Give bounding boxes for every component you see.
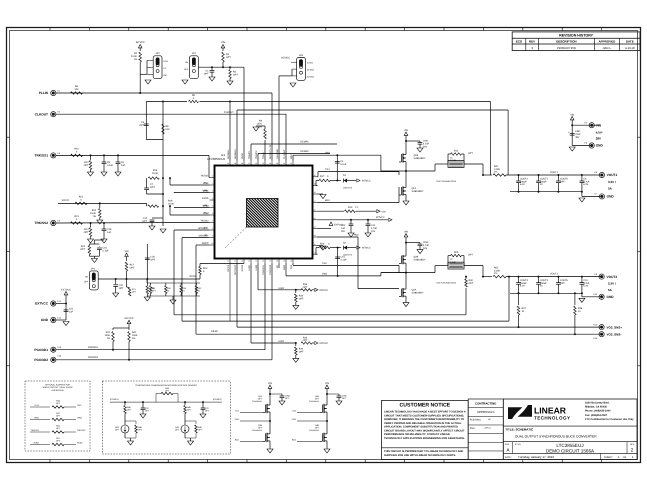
svg-text:INTVCC: INTVCC — [320, 289, 329, 292]
svg-text:0.1uF: 0.1uF — [341, 259, 348, 262]
svg-text:330uF: 330uF — [540, 282, 547, 285]
svg-text:CIRCUIT THAT MEETS CUSTOMER-SU: CIRCUIT THAT MEETS CUSTOMER-SUPPLIED SPE… — [384, 414, 464, 417]
svg-text:1%: 1% — [494, 272, 497, 275]
svg-text:R19: R19 — [348, 206, 353, 209]
svg-text:ILIM1: ILIM1 — [278, 340, 285, 343]
svg-text:1%: 1% — [259, 126, 262, 129]
svg-text:R25: R25 — [454, 251, 459, 254]
svg-text:TOK PLF10545-2R2M: TOK PLF10545-2R2M — [436, 180, 456, 183]
svg-text:PERFORMANCE OR RELIABILITY. C: PERFORMANCE OR RELIABILITY. CONTACT LINE… — [384, 433, 450, 436]
svg-text:EXTVCC: EXTVCC — [61, 288, 71, 291]
svg-text:VFB1: VFB1 — [203, 190, 210, 193]
svg-text:COUT2: COUT2 — [520, 178, 529, 181]
svg-text:R39: R39 — [299, 348, 304, 351]
svg-text:R10: R10 — [74, 148, 79, 151]
svg-text:1630 McCarthy Blvd.: 1630 McCarthy Blvd. — [585, 401, 610, 404]
svg-text:R22: R22 — [79, 196, 84, 199]
svg-text:7: 7 — [212, 220, 213, 223]
svg-text:EXTVCC: EXTVCC — [334, 223, 344, 226]
svg-text:INTVCC: INTVCC — [362, 180, 371, 183]
svg-text:TITLE: SCHEMATIC: TITLE: SCHEMATIC — [505, 428, 534, 432]
svg-text:LTC3855EUJ: LTC3855EUJ — [207, 157, 225, 161]
svg-text:Q2A: Q2A — [412, 289, 417, 292]
svg-text:DIFFN: DIFFN — [227, 265, 230, 272]
svg-text:1uF: 1uF — [121, 164, 126, 167]
svg-text:INTVCC: INTVCC — [136, 41, 145, 44]
svg-text:R17: R17 — [130, 264, 135, 267]
svg-text:11: 11 — [227, 260, 229, 263]
svg-text:PHASMD: PHASMD — [276, 149, 279, 159]
svg-text:R36: R36 — [303, 283, 308, 286]
svg-text:R18: R18 — [168, 200, 173, 203]
svg-text:6.3V: 6.3V — [520, 183, 525, 186]
svg-text:OF: OF — [623, 456, 627, 459]
svg-text:6: 6 — [212, 212, 213, 215]
svg-text:APPROVALS: APPROVALS — [477, 410, 494, 414]
svg-text:1%: 1% — [93, 215, 96, 218]
svg-text:VIN: VIN — [596, 123, 602, 127]
svg-text:TEMPERATURE COMPENSATION NETWO: TEMPERATURE COMPENSATION NETWORK FOR DCR… — [135, 384, 197, 387]
svg-text:LINEAR TECHNOLOGY HAS MADE A B: LINEAR TECHNOLOGY HAS MADE A BEST EFFORT… — [384, 411, 466, 414]
svg-text:RUN2: RUN2 — [77, 441, 83, 444]
svg-text:COUT5: COUT5 — [560, 178, 569, 181]
svg-text:PGOOD1: PGOOD1 — [88, 346, 99, 349]
svg-text:OPT: OPT — [80, 248, 85, 251]
svg-text:PGOOD2: PGOOD2 — [34, 358, 48, 362]
svg-text:VFB2: VFB2 — [77, 416, 83, 419]
svg-text:R38: R38 — [578, 307, 583, 310]
svg-text:OPT: OPT — [299, 298, 304, 301]
svg-text:0.1uF: 0.1uF — [103, 250, 110, 253]
svg-text:FDS6982AS: FDS6982AS — [252, 429, 263, 432]
svg-text:C28: C28 — [150, 256, 155, 259]
svg-text:C19: C19 — [583, 279, 588, 282]
svg-text:Phone: (408)432-1900: Phone: (408)432-1900 — [585, 410, 611, 413]
svg-text:34: 34 — [269, 162, 271, 165]
svg-text:OPERATION: OPERATION — [52, 389, 64, 392]
svg-text:IC NO.: IC NO. — [515, 443, 522, 446]
svg-text:VOUT1: VOUT1 — [607, 173, 618, 177]
svg-text:TRK/SS2: TRK/SS2 — [77, 429, 86, 432]
svg-text:OPT: OPT — [130, 267, 135, 270]
svg-text:4.7uF: 4.7uF — [583, 282, 590, 285]
svg-text:OPT: OPT — [139, 124, 144, 127]
svg-text:MODE/PLLIN: MODE/PLLIN — [269, 145, 272, 159]
svg-text:JP4: JP4 — [91, 267, 96, 270]
svg-text:20.0K: 20.0K — [152, 172, 159, 175]
svg-text:R37: R37 — [522, 307, 527, 310]
svg-text:DUAL OUTPUT SYNCHRONOUS BUCK C: DUAL OUTPUT SYNCHRONOUS BUCK CONVERTER — [515, 435, 597, 439]
svg-text:40: 40 — [227, 162, 229, 165]
svg-text:VFB2: VFB2 — [203, 205, 210, 208]
svg-text:NC: NC — [276, 265, 279, 269]
svg-text:PGOOD1: PGOOD1 — [34, 348, 48, 352]
svg-text:R29: R29 — [203, 267, 208, 270]
svg-text:REV: REV — [630, 443, 635, 446]
svg-text:RUN2: RUN2 — [241, 264, 244, 271]
svg-text:BM: BM — [164, 74, 167, 77]
svg-text:JIAN LI: JIAN LI — [484, 427, 491, 430]
svg-text:GND: GND — [596, 144, 604, 148]
svg-text:R42: R42 — [132, 331, 137, 334]
svg-text:VIN: VIN — [325, 382, 329, 385]
svg-text:PRODUCTION: PRODUCTION — [557, 46, 576, 50]
svg-text:(ITEMP1): (ITEMP1) — [110, 398, 119, 401]
svg-text:6.3V: 6.3V — [583, 285, 588, 288]
svg-text:R20: R20 — [92, 209, 97, 212]
svg-text:FCM: FCM — [164, 60, 169, 63]
svg-text:SW1: SW1 — [290, 153, 293, 159]
svg-text:VOUT1: VOUT1 — [62, 199, 71, 202]
svg-text:24: 24 — [314, 226, 316, 229]
svg-text:DEMO CIRCUIT 1566A: DEMO CIRCUIT 1566A — [546, 449, 595, 454]
svg-text:OPT: OPT — [468, 152, 473, 155]
svg-text:SUPPLIED FOR USE WITH LINEAR T: SUPPLIED FOR USE WITH LINEAR TECHNOLOGY … — [384, 454, 456, 457]
svg-text:PLLIN: PLLIN — [39, 91, 49, 95]
svg-text:RUN1: RUN1 — [34, 441, 40, 444]
svg-text:FDS6982AS: FDS6982AS — [309, 400, 320, 403]
svg-text:OPTIONAL JUMPERS FOR: OPTIONAL JUMPERS FOR — [45, 384, 70, 387]
svg-text:13: 13 — [241, 260, 243, 263]
svg-text:28V: 28V — [596, 137, 601, 141]
svg-text:JIAN L.: JIAN L. — [602, 46, 611, 50]
svg-text:19: 19 — [283, 260, 285, 263]
svg-text:0.1uF: 0.1uF — [107, 164, 114, 167]
svg-text:4V: 4V — [540, 285, 543, 288]
svg-text:29: 29 — [314, 183, 316, 186]
svg-text:100K: 100K — [132, 334, 138, 337]
svg-text:33: 33 — [276, 162, 278, 165]
svg-text:VOUT2: VOUT2 — [550, 272, 559, 275]
svg-text:Q1B: Q1B — [414, 154, 419, 157]
svg-text:C20: C20 — [119, 284, 124, 287]
svg-text:4-13-10: 4-13-10 — [625, 46, 635, 50]
svg-text:27: 27 — [314, 200, 316, 203]
svg-text:35: 35 — [262, 162, 264, 165]
svg-text:SW1: SW1 — [325, 151, 331, 154]
svg-text:OPT: OPT — [150, 259, 155, 262]
svg-text:OPT: OPT — [119, 287, 124, 290]
svg-text:1%: 1% — [134, 58, 137, 61]
svg-text:1: 1 — [212, 175, 213, 178]
svg-text:Q1A: Q1A — [412, 187, 417, 190]
svg-text:25: 25 — [314, 217, 316, 220]
svg-text:ILIM2: ILIM2 — [255, 264, 258, 271]
svg-text:20: 20 — [290, 260, 292, 263]
svg-text:10K: 10K — [74, 88, 79, 91]
svg-text:4V: 4V — [540, 183, 543, 186]
svg-text:5: 5 — [212, 205, 213, 208]
svg-text:Milpitas, CA 95035: Milpitas, CA 95035 — [585, 406, 607, 409]
svg-text:2.5V /: 2.5V / — [608, 282, 616, 286]
svg-text:2.2uH: 2.2uH — [450, 159, 457, 162]
svg-text:32: 32 — [283, 162, 285, 165]
svg-text:COUT1: COUT1 — [540, 178, 549, 181]
svg-text:23: 23 — [314, 234, 316, 237]
svg-text:FDS6982AS: FDS6982AS — [252, 400, 263, 403]
svg-text:OPT: OPT — [233, 74, 238, 77]
svg-text:FDS6982AS: FDS6982AS — [309, 429, 320, 432]
svg-text:CMDSH-3: CMDSH-3 — [343, 187, 353, 190]
svg-text:2.2uH: 2.2uH — [450, 261, 457, 264]
svg-text:OPT: OPT — [84, 231, 89, 234]
svg-text:12: 12 — [234, 260, 236, 263]
svg-text:3.3V /: 3.3V / — [608, 180, 616, 184]
svg-text:CLKOUT: CLKOUT — [35, 112, 48, 116]
svg-text:THIS CIRCUIT IS PROPRIETARY TO: THIS CIRCUIT IS PROPRIETARY TO LINEAR TE… — [384, 450, 463, 453]
svg-text:PGOOD1: PGOOD1 — [262, 264, 265, 275]
svg-text:ITH2: ITH2 — [203, 212, 209, 215]
svg-text:50V: 50V — [423, 146, 428, 149]
svg-text:OPT: OPT — [468, 254, 473, 257]
svg-text:OPT: OPT — [303, 286, 308, 289]
svg-text:14: 14 — [248, 260, 250, 263]
svg-text:CIRCUIT BOARD LAYOUT MAY SIGNI: CIRCUIT BOARD LAYOUT MAY SIGNIFICANTLY A… — [384, 429, 465, 432]
svg-text:C18: C18 — [107, 228, 112, 231]
svg-text:31: 31 — [290, 162, 292, 165]
svg-text:DATE:: DATE: — [505, 456, 512, 459]
svg-text:PGOOD2: PGOOD2 — [269, 264, 272, 275]
svg-text:REV: REV — [529, 40, 535, 44]
svg-text:10: 10 — [211, 242, 213, 245]
svg-text:25V: 25V — [341, 230, 346, 233]
svg-text:CIN3: CIN3 — [423, 241, 429, 244]
svg-text:APPROVED: APPROVED — [599, 40, 617, 44]
svg-text:ECO: ECO — [516, 40, 523, 44]
svg-text:ILIM1: ILIM1 — [248, 264, 251, 271]
svg-text:VFB1: VFB1 — [34, 416, 40, 419]
svg-text:VOUT1: VOUT1 — [550, 171, 559, 174]
svg-text:DIFFP: DIFFP — [202, 242, 209, 245]
svg-text:4.7uF: 4.7uF — [583, 180, 590, 183]
svg-text:Si4816BDY: Si4816BDY — [414, 259, 426, 262]
svg-text:INTVCC: INTVCC — [376, 216, 385, 219]
svg-text:17: 17 — [269, 260, 271, 263]
svg-text:C21: C21 — [69, 308, 74, 311]
svg-text:C16: C16 — [103, 247, 108, 250]
svg-text:SIZE: SIZE — [505, 443, 510, 446]
svg-text:0.005: 0.005 — [494, 269, 501, 272]
svg-text:APPLICATION. COMPONENT SUBSTIT: APPLICATION. COMPONENT SUBSTITUTION AND … — [384, 426, 458, 429]
svg-text:20.0K: 20.0K — [131, 55, 138, 58]
svg-text:0.005: 0.005 — [494, 168, 501, 171]
svg-text:DATE: DATE — [626, 40, 634, 44]
svg-text:CIN2: CIN2 — [423, 140, 429, 143]
svg-text:TRK/SS1: TRK/SS1 — [31, 429, 40, 432]
svg-text:JP2: JP2 — [156, 52, 161, 55]
svg-text:ITEMP1: ITEMP1 — [248, 150, 251, 159]
svg-text:R41: R41 — [494, 165, 499, 168]
svg-text:36: 36 — [255, 162, 257, 165]
svg-text:21: 21 — [314, 251, 316, 254]
svg-text:ENG.: ENG. — [470, 427, 476, 430]
svg-text:TG1: TG1 — [325, 168, 330, 171]
svg-text:GND: GND — [607, 295, 615, 299]
svg-text:R26: R26 — [320, 242, 325, 245]
svg-text:SW2: SW2 — [283, 264, 286, 270]
svg-text:26: 26 — [314, 208, 316, 211]
svg-text:SINGLE OUTPUT / DUAL PHASE: SINGLE OUTPUT / DUAL PHASE — [42, 386, 73, 389]
svg-text:100uF: 100uF — [520, 180, 527, 183]
svg-text:VIN: VIN — [570, 113, 574, 116]
svg-text:SW2: SW2 — [322, 272, 328, 275]
svg-text:1uF: 1uF — [107, 231, 112, 234]
svg-text:Si4816BDY: Si4816BDY — [412, 292, 424, 295]
svg-text:VERIFY PROPER AND RELIABLE OPE: VERIFY PROPER AND RELIABLE OPERATION IN … — [384, 422, 462, 425]
svg-text:VO2_SNS+: VO2_SNS+ — [607, 325, 623, 329]
svg-text:20.0K: 20.0K — [90, 212, 97, 215]
svg-text:BG2: BG2 — [354, 234, 359, 237]
svg-text:VIN: VIN — [382, 210, 386, 213]
svg-text:VOUT2: VOUT2 — [607, 275, 618, 279]
svg-text:HOWEVER, IT REMAINS THE CUSTOM: HOWEVER, IT REMAINS THE CUSTOMER'S RESPO… — [384, 418, 464, 421]
svg-text:REVISION HISTORY: REVISION HISTORY — [559, 34, 594, 38]
svg-text:ITEMP2: ITEMP2 — [255, 150, 258, 159]
svg-text:100uF: 100uF — [520, 282, 527, 285]
svg-text:C10: C10 — [143, 217, 148, 220]
svg-text:R52: R52 — [494, 267, 499, 270]
svg-text:CLKOUT: CLKOUT — [224, 111, 234, 114]
svg-text:20.0K: 20.0K — [168, 203, 175, 206]
svg-text:35V: 35V — [575, 136, 580, 139]
svg-text:TG2: TG2 — [290, 264, 293, 269]
svg-text:GND: GND — [607, 195, 615, 199]
svg-text:INTVCC: INTVCC — [320, 342, 329, 345]
svg-text:JP1: JP1 — [192, 52, 197, 55]
svg-text:4.5V-: 4.5V- — [596, 131, 603, 135]
svg-text:Q3B: Q3B — [258, 424, 263, 427]
svg-text:OPT: OPT — [150, 186, 155, 189]
svg-text:VO2_SNS-: VO2_SNS- — [607, 332, 622, 336]
svg-text:39: 39 — [234, 162, 236, 165]
svg-text:R34: R34 — [299, 295, 304, 298]
svg-text:RUN2: RUN2 — [190, 275, 197, 278]
svg-text:OPT: OPT — [469, 282, 474, 285]
svg-text:OPT: OPT — [299, 351, 304, 354]
svg-text:ITEMP2: ITEMP2 — [300, 150, 309, 153]
svg-text:R24: R24 — [81, 245, 86, 248]
svg-text:R12: R12 — [84, 161, 89, 164]
svg-text:18: 18 — [276, 260, 278, 263]
svg-text:3: 3 — [212, 190, 213, 193]
svg-text:4.7uF: 4.7uF — [423, 244, 430, 247]
svg-text:INTVCC: INTVCC — [281, 57, 290, 60]
svg-text:16: 16 — [262, 260, 264, 263]
svg-text:R30: R30 — [469, 279, 474, 282]
svg-text:SHEET: SHEET — [604, 456, 613, 459]
svg-text:2: 2 — [631, 448, 634, 453]
svg-text:ILIM2: ILIM2 — [278, 287, 285, 290]
svg-text:DESCRIPTION: DESCRIPTION — [556, 40, 577, 44]
svg-text:CONTRACTING: CONTRACTING — [475, 401, 497, 405]
svg-text:0 DEG: 0 DEG — [307, 62, 313, 65]
svg-text:Si4816BDY: Si4816BDY — [414, 157, 426, 160]
svg-text:1%: 1% — [494, 171, 497, 174]
svg-text:91K: 91K — [166, 128, 171, 131]
svg-text:Si4816BDY: Si4816BDY — [412, 190, 424, 193]
svg-text:Q4B: Q4B — [315, 424, 320, 427]
svg-text:VIN: VIN — [404, 231, 408, 234]
svg-text:S2+: S2+ — [204, 227, 209, 230]
svg-text:R11: R11 — [454, 150, 459, 153]
svg-text:90 DEG: 90 DEG — [307, 76, 315, 79]
svg-text:DIFFP: DIFFP — [211, 330, 218, 333]
svg-text:LTC Confidential-For Customer: LTC Confidential-For Customer Use Only — [585, 418, 634, 421]
svg-text:S2-: S2- — [204, 234, 208, 237]
svg-text:(ITEMP2): (ITEMP2) — [213, 398, 222, 401]
svg-text:DIFFOUT: DIFFOUT — [234, 264, 237, 275]
svg-text:RUN1: RUN1 — [241, 152, 244, 159]
svg-text:INTVCC: INTVCC — [362, 247, 371, 250]
svg-text:VIN: VIN — [221, 41, 225, 44]
svg-text:SGND: SGND — [202, 197, 209, 200]
svg-text:OPT: OPT — [560, 282, 565, 285]
svg-text:COUT4: COUT4 — [520, 279, 529, 282]
svg-text:COUT6: COUT6 — [560, 279, 569, 282]
svg-text:38: 38 — [241, 162, 243, 165]
svg-text:OPT: OPT — [560, 180, 565, 183]
svg-text:CUSTOMER NOTICE: CUSTOMER NOTICE — [400, 403, 451, 409]
svg-text:TK/SS1: TK/SS1 — [200, 175, 209, 178]
svg-text:VIN: VIN — [268, 382, 272, 385]
svg-text:C15: C15 — [341, 256, 346, 259]
svg-text:TOK PLF10545-2R2M: TOK PLF10545-2R2M — [436, 282, 456, 285]
svg-text:60 DEG: 60 DEG — [307, 69, 315, 72]
svg-text:50V: 50V — [423, 247, 428, 250]
svg-text:6.3V: 6.3V — [583, 183, 588, 186]
svg-text:6.3V: 6.3V — [520, 285, 525, 288]
svg-text:37: 37 — [248, 162, 250, 165]
svg-text:OPT: OPT — [204, 73, 209, 76]
svg-text:1uF: 1uF — [69, 311, 74, 314]
svg-text:TRK/SS1: TRK/SS1 — [35, 154, 49, 158]
svg-text:C14: C14 — [371, 224, 376, 227]
svg-text:1%: 1% — [107, 337, 110, 340]
svg-text:2: 2 — [212, 182, 213, 185]
svg-text:R35: R35 — [303, 336, 308, 339]
svg-text:EXTVCC: EXTVCC — [35, 302, 49, 306]
svg-text:Q4A: Q4A — [315, 395, 320, 398]
svg-text:VIN: VIN — [125, 250, 129, 253]
svg-text:TECHNOLOGY: TECHNOLOGY — [534, 416, 570, 421]
svg-text:BG1: BG1 — [325, 199, 330, 202]
svg-text:R17: R17 — [320, 175, 325, 178]
svg-text:OPT: OPT — [226, 56, 231, 59]
svg-text:TK/SS2: TK/SS2 — [200, 220, 209, 223]
svg-text:10V: 10V — [371, 230, 376, 233]
svg-text:TG2: TG2 — [322, 262, 327, 265]
svg-text:0.1uF: 0.1uF — [340, 163, 347, 166]
svg-text:SENSE1-: SENSE1- — [227, 149, 230, 159]
svg-text:TRK/SS2: TRK/SS2 — [35, 221, 49, 225]
svg-text:4: 4 — [212, 197, 213, 200]
svg-text:9: 9 — [212, 235, 213, 238]
svg-text:COUT3: COUT3 — [540, 279, 549, 282]
svg-text:OPT: OPT — [303, 339, 308, 342]
svg-text:CIN1: CIN1 — [575, 130, 581, 133]
svg-text:8: 8 — [212, 227, 213, 230]
svg-text:Fax: (408)434-0507: Fax: (408)434-0507 — [585, 414, 608, 417]
svg-text:1uF: 1uF — [341, 227, 346, 230]
svg-text:22uF: 22uF — [575, 133, 581, 136]
svg-text:100K: 100K — [105, 334, 111, 337]
svg-text:INTVCC: INTVCC — [125, 317, 134, 320]
svg-text:R41: R41 — [106, 331, 111, 334]
svg-text:Tuesday, January 17, 2012: Tuesday, January 17, 2012 — [518, 455, 554, 459]
svg-text:VIN: VIN — [404, 129, 408, 132]
svg-text:LTC3855EUJ: LTC3855EUJ — [556, 443, 583, 448]
svg-text:Q3A: Q3A — [258, 395, 263, 398]
